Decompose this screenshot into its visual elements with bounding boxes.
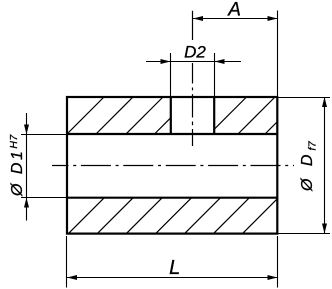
svg-text:L: L xyxy=(169,257,180,279)
svg-text:A: A xyxy=(227,0,241,21)
svg-text:D2: D2 xyxy=(184,43,206,62)
